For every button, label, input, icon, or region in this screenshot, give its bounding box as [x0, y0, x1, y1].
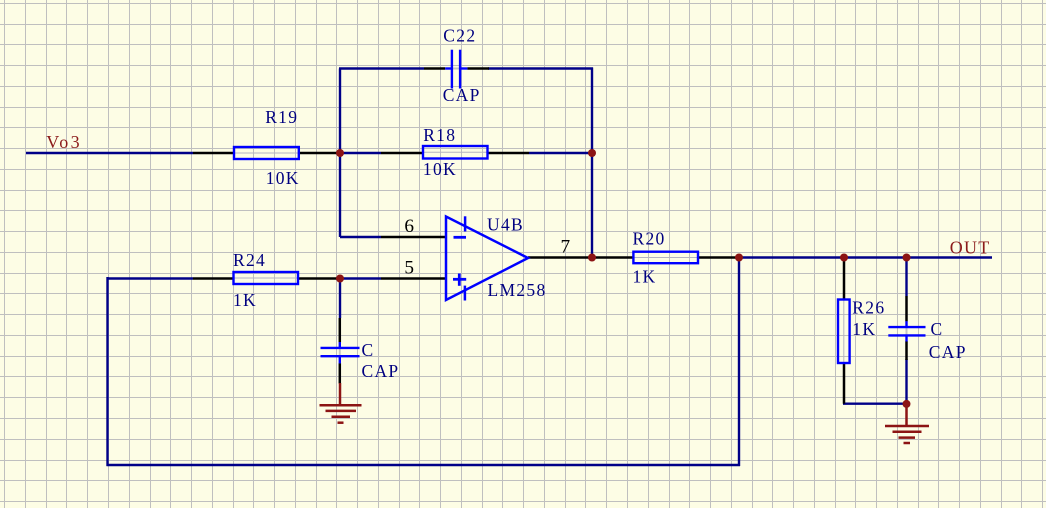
- wire output net to OUT: [739, 256, 992, 258]
- junction R26 top: [840, 254, 848, 262]
- wire to pin 6: [340, 236, 381, 238]
- pin R24.1: [193, 277, 234, 280]
- junction node B: [336, 275, 344, 283]
- svg-text:R19: R19: [265, 107, 298, 127]
- pin R26.2: [843, 363, 846, 404]
- wire vertical right feedback down: [591, 68, 593, 258]
- pin R18.1: [381, 152, 423, 155]
- svg-text:5: 5: [404, 258, 415, 279]
- wire R24 to pin 5: [340, 277, 381, 279]
- pin C.1 left cap: [339, 318, 342, 342]
- svg-text:7: 7: [561, 237, 572, 258]
- capacitor C (left): [321, 342, 360, 363]
- svg-text:C: C: [362, 340, 375, 360]
- svg-text:LM258: LM258: [488, 280, 547, 300]
- pin C.2 left cap: [339, 363, 342, 383]
- pin C.2 right cap: [905, 341, 908, 360]
- pin R26.1: [843, 258, 846, 300]
- pin R24.2: [298, 277, 340, 280]
- pin U4B.6: [381, 236, 446, 239]
- svg-text:1K: 1K: [852, 319, 876, 339]
- junction C right top: [903, 254, 911, 262]
- pin C.1 right cap: [905, 296, 908, 321]
- op-amp U4B LM258: [446, 216, 528, 300]
- junction ground node: [903, 400, 911, 408]
- wire feedback bottom horizontal: [107, 464, 741, 466]
- svg-text:R26: R26: [852, 298, 885, 318]
- pin R19.1: [193, 152, 234, 155]
- wire R19 to R18: [340, 152, 381, 154]
- junction output pin: [588, 254, 596, 262]
- svg-text:C22: C22: [443, 26, 476, 46]
- ground (right, below output filter): [885, 404, 929, 443]
- resistor R24: [234, 272, 299, 284]
- pin C22.1: [424, 67, 445, 70]
- svg-text:R24: R24: [233, 250, 266, 270]
- resistor R18: [423, 146, 488, 159]
- svg-text:Vo3: Vo3: [46, 132, 82, 152]
- wire vertical node A up to C22 row: [339, 69, 341, 155]
- wire R18 right to node: [529, 152, 592, 154]
- junction feedback tap: [735, 254, 743, 262]
- resistor R26: [838, 300, 850, 364]
- svg-text:R20: R20: [633, 229, 666, 249]
- capacitor C (right): [888, 321, 925, 341]
- svg-text:U4B: U4B: [487, 215, 524, 235]
- resistor R20: [633, 252, 698, 264]
- svg-text:R18: R18: [423, 125, 456, 145]
- pin R18.2: [488, 152, 530, 155]
- pin U4B.5: [381, 277, 446, 280]
- svg-text:CAP: CAP: [443, 85, 481, 105]
- wire feedback to R24: [108, 277, 194, 279]
- svg-text:1K: 1K: [633, 266, 657, 286]
- capacitor C22: [445, 50, 467, 89]
- wire node B down to cap C: [339, 279, 341, 319]
- svg-text:OUT: OUT: [950, 238, 991, 258]
- svg-text:CAP: CAP: [362, 361, 400, 381]
- wire cap bottom to ground node: [905, 359, 907, 404]
- junction node A: [336, 149, 344, 157]
- svg-text:6: 6: [404, 216, 415, 237]
- wire C22 row right: [488, 67, 593, 69]
- pin R20.1: [592, 256, 633, 259]
- ground (left, below cap C): [320, 383, 362, 423]
- pin C22.2: [467, 67, 489, 70]
- wire Vo3 net to R19: [26, 152, 193, 154]
- svg-text:10K: 10K: [423, 159, 457, 179]
- pin U4B.7 output: [528, 256, 592, 259]
- svg-text:CAP: CAP: [929, 342, 967, 362]
- resistor R19: [234, 147, 299, 159]
- wire feedback vertical left up: [106, 277, 108, 466]
- wire vertical node A down to pin 6: [339, 153, 341, 237]
- wire R26 bottom to ground node: [843, 403, 907, 405]
- wire out node down to cap C right: [905, 258, 907, 297]
- wire C22 row left: [339, 67, 424, 69]
- junction R18 right: [588, 149, 596, 157]
- pin R20.2: [698, 256, 739, 259]
- pin R19.2: [299, 152, 340, 155]
- svg-text:C: C: [931, 319, 944, 339]
- wire feedback vertical down: [738, 258, 740, 467]
- svg-text:10K: 10K: [266, 168, 300, 188]
- svg-text:1K: 1K: [233, 290, 257, 310]
